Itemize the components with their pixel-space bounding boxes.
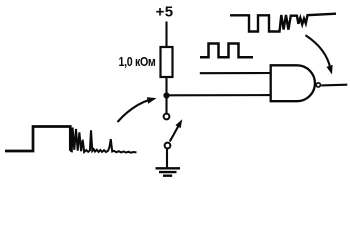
wire node A to NAND input <box>167 94 271 96</box>
resistor R1 body <box>161 47 173 77</box>
svg-text:+5: +5 <box>156 3 174 20</box>
wire NAND output <box>321 84 347 87</box>
waveform: bouncing switch signal (bottom left) <box>5 127 70 152</box>
waveform: output with glitches (top right) <box>230 14 336 32</box>
NAND gate U1 body <box>271 65 315 101</box>
wire node A to switch contact <box>165 96 167 114</box>
node A junction dot <box>163 92 169 98</box>
waveform: clean input pulses (middle) <box>200 44 253 58</box>
svg-text:1,0 кОм: 1,0 кОм <box>119 55 156 69</box>
ground symbol <box>156 168 181 175</box>
waveform: contact-bounce spikes <box>70 128 136 153</box>
wire resistor to node A <box>165 77 167 97</box>
arrow from bounce waveform to node A <box>118 97 157 122</box>
wire +5 to resistor R1 <box>165 22 167 48</box>
NAND gate U1 output bubble <box>316 83 320 87</box>
arrow from glitch waveform to NAND output <box>306 35 333 74</box>
switch contact circle lower <box>165 143 171 149</box>
wire NAND top input <box>200 72 271 74</box>
switch arm arrow <box>170 119 182 141</box>
wire switch to ground <box>166 149 168 168</box>
switch contact circle upper <box>164 114 170 120</box>
